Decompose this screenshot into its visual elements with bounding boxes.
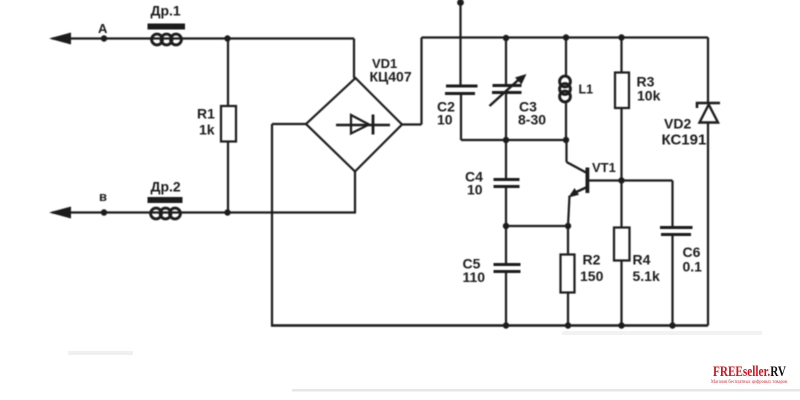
junction dot C4 bus left: [503, 223, 509, 229]
wire from B-line up to bridge bottom: [354, 172, 356, 213]
inductor Др.1: [148, 3, 186, 45]
arrow B input: [49, 207, 71, 219]
wire B-line bottom input: [52, 211, 356, 213]
svg-text:10: 10: [437, 112, 453, 128]
svg-text:Др.2: Др.2: [151, 179, 181, 195]
junction dot bottom bus / C5: [503, 322, 509, 328]
resistor R2: [561, 226, 604, 326]
wire mid bus: [461, 139, 567, 141]
wire left vertical down to bottom bus: [271, 124, 273, 327]
svg-text:КЦ407: КЦ407: [370, 69, 412, 85]
resistor R4: [614, 181, 660, 326]
svg-text:5.1k: 5.1k: [633, 268, 660, 284]
junction dot mid bus / L1: [563, 137, 569, 143]
junction dot C4 bus right / emitter: [565, 223, 571, 229]
svg-text:R2: R2: [583, 252, 601, 268]
svg-text:R4: R4: [633, 252, 651, 268]
svg-text:1k: 1k: [199, 122, 215, 138]
svg-text:150: 150: [580, 268, 604, 284]
node B: [101, 209, 107, 215]
svg-text:110: 110: [463, 269, 486, 285]
wire from A-line down to bridge top: [353, 39, 355, 79]
wire C4 bus: [506, 225, 568, 227]
svg-text:в: в: [99, 189, 107, 204]
wire VD2 branch top: [707, 38, 709, 104]
wire bridge right vertex to riser: [402, 123, 422, 125]
capacitor C5: [463, 226, 521, 326]
wire antenna line: [459, 1, 461, 86]
wire C2 bottom to mid bus: [460, 94, 462, 141]
wire C3 top: [505, 38, 507, 86]
wire R3 bottom to collector bus: [620, 108, 622, 181]
junction dot bottom bus / C6: [669, 322, 675, 328]
inductor L1: [560, 38, 594, 141]
svg-text:L1: L1: [579, 83, 594, 97]
wire C3 bottom to mid bus: [505, 93, 507, 141]
wire R1 branch lower: [227, 142, 229, 213]
svg-text:R1: R1: [197, 106, 215, 122]
wire bottom bus: [271, 324, 708, 326]
junction dot bottom bus / R4: [618, 322, 624, 328]
wire bridge left vertex to left vertical: [272, 123, 306, 125]
node A: [101, 35, 107, 41]
svg-text:FREEseller.RV: FREEseller.RV: [713, 364, 786, 380]
capacitor C6: [660, 181, 702, 326]
transistor VT1: [567, 140, 616, 226]
capacitor C2: [437, 86, 478, 128]
wire top bus: [422, 36, 709, 38]
junction dot bottom bus / R2: [565, 322, 571, 328]
scan artifact streaks: [562, 331, 762, 335]
wire R1 branch upper: [227, 39, 229, 107]
capacitor C4: [465, 140, 520, 226]
wire VD2 bottom to bottom bus: [707, 123, 709, 326]
junction dot mid bus / C3: [503, 137, 509, 143]
svg-text:10: 10: [467, 182, 483, 198]
junction dot collector bus / R4: [618, 177, 624, 183]
diode bridge VD1 diamond: [306, 78, 402, 172]
svg-text:КС191: КС191: [662, 132, 707, 149]
svg-text:A: A: [98, 21, 108, 36]
wire A-line top input: [52, 37, 354, 39]
wire R3 top: [620, 38, 622, 73]
bridge diode symbol: [336, 115, 390, 135]
junction dot top bus / C3: [503, 35, 509, 41]
svg-text:VD2: VD2: [664, 116, 691, 132]
wire riser up to top bus: [420, 38, 422, 125]
svg-text:Магазин бесплатных цифровых то: Магазин бесплатных цифровых товаров: [711, 380, 788, 385]
junction dot top bus / L1: [563, 34, 569, 40]
junction dot top bus / R3: [618, 34, 624, 40]
FREEseller.RV logo: [711, 364, 788, 385]
svg-text:8-30: 8-30: [518, 112, 546, 128]
arrow A input: [49, 33, 71, 45]
capacitor C3 variable: [490, 74, 547, 128]
junction dot B-line / R1 branch: [224, 209, 230, 215]
resistor R3: [615, 73, 661, 109]
svg-text:0.1: 0.1: [683, 259, 703, 275]
junction dot A-line / R1 branch: [224, 35, 230, 41]
svg-text:Др.1: Др.1: [151, 3, 181, 19]
wire collector bus: [589, 179, 673, 181]
inductor Др.2: [148, 179, 183, 219]
svg-text:VT1: VT1: [592, 160, 616, 175]
svg-text:10k: 10k: [637, 88, 661, 104]
zener diode VD2: [662, 103, 721, 149]
resistor R1: [197, 106, 236, 142]
